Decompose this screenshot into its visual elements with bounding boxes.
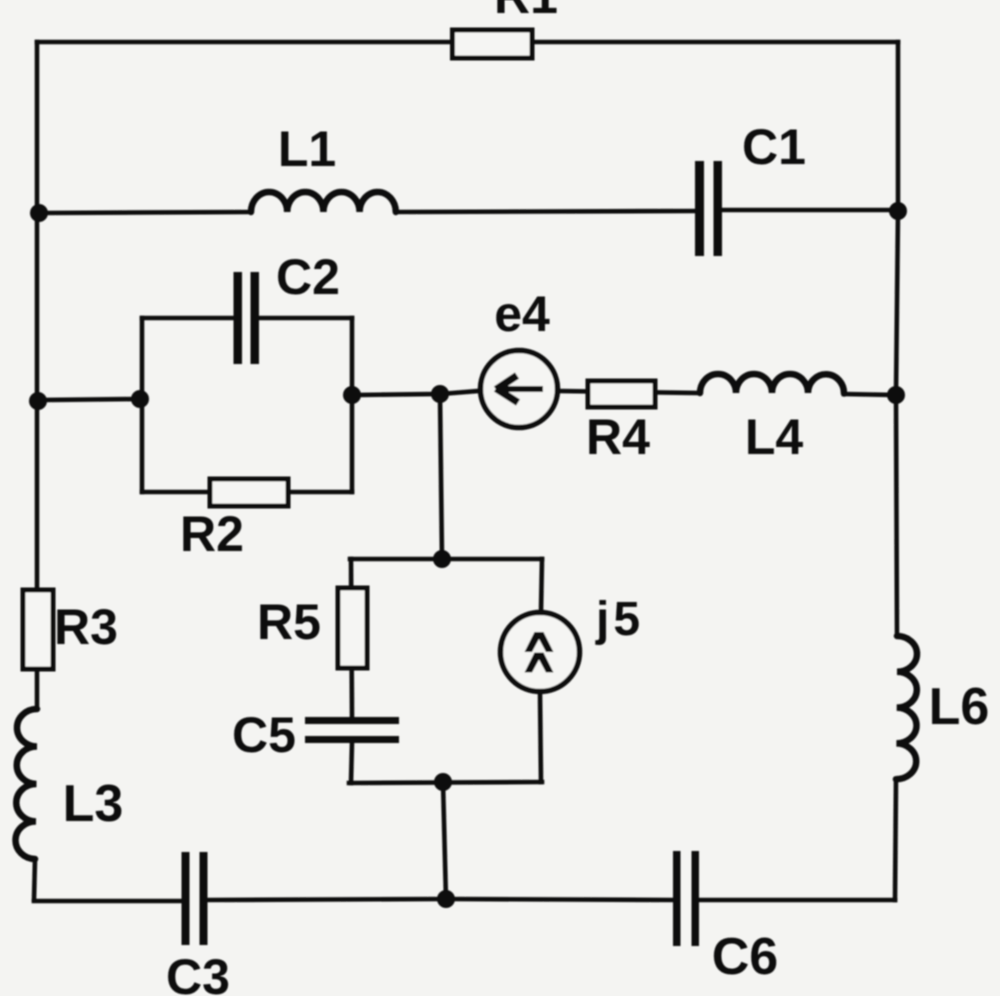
svg-text:R4: R4 [586,409,650,465]
wire R3 to L3 [35,669,40,709]
wire L1 to C1 [396,211,695,212]
svg-text:L1: L1 [278,121,336,177]
wire right vertical [896,42,898,636]
node C2R2 left [131,390,149,408]
wire C5 down [351,743,352,783]
svg-text:C5: C5 [232,707,296,763]
svg-text:L4: L4 [745,409,804,465]
resistor R3 [23,590,53,669]
capacitor C6 [673,851,699,946]
svg-text:C2: C2 [276,249,340,305]
wire R5J5 bottom branch [349,782,542,783]
wire node to C6 [446,899,673,900]
wire C2 branch right [259,316,352,321]
node C2R2 right [343,386,361,404]
inductor L3 [16,709,37,859]
svg-text:e4: e4 [494,286,550,342]
svg-text:L6: L6 [929,678,990,736]
inductor L4 [700,374,844,394]
wire R5 left side upper [351,559,352,717]
wire left vertical upper [35,42,40,590]
svg-text:R5: R5 [257,594,321,650]
arrows of J5 [525,632,554,673]
wire J5 right side lower [540,692,541,782]
source e4 [481,351,558,428]
resistor R2 [210,479,288,506]
svg-text:R2: R2 [180,506,244,562]
capacitor C3 [182,852,208,945]
svg-text:C6: C6 [712,928,778,986]
wire C3 to node [207,899,446,900]
resistor R4 [588,381,655,407]
node L1 left [30,204,48,222]
arrow of e4 [496,376,543,403]
inductor L1 [251,192,396,212]
wire C2R2 right side [350,318,355,492]
wire J5 right side upper [541,559,542,612]
wire R5J5 top branch [350,557,542,562]
wire C2 branch left [142,316,234,321]
svg-text:C1: C1 [742,119,806,175]
capacitor C1 [695,161,722,256]
wire L1 row left [39,212,251,213]
node bottom middle [437,890,455,908]
capacitor C5 [305,717,399,743]
wire L4 to right [844,394,896,395]
node middle left [29,392,47,410]
resistor R1 [453,30,533,58]
wire R5J5 down to bottom [443,782,446,900]
wire right vertical lower [895,779,896,900]
wire C2R2 left side [140,318,145,492]
wire top horizontal [37,40,898,45]
wire C6 to corner [699,898,895,903]
wire middle to e4 [352,394,440,395]
svg-text:C3: C3 [166,949,230,996]
wire bottom left [34,899,182,904]
wire middle left [38,399,140,400]
wire C1 to right [722,208,898,213]
node R5J5 bottom [434,773,452,791]
svg-text:R1: R1 [494,0,558,24]
capacitor C2 [234,272,260,364]
node middle right [887,386,905,404]
svg-text:j5: j5 [595,593,644,646]
wire e4 branch [440,391,478,394]
inductor L6 [896,636,917,779]
wire L3 to corner [34,859,35,900]
node R5J5 top [433,550,451,568]
svg-text:R3: R3 [54,599,118,655]
node e4 branch [431,385,449,403]
source J5 [501,613,580,692]
svg-text:L3: L3 [63,775,124,833]
wire e4 to R4 to L4 [559,391,700,393]
wire e4 node down [440,394,442,559]
resistor R5 [338,588,367,668]
wire R2 branch [142,490,352,495]
node C1 right [889,202,907,220]
